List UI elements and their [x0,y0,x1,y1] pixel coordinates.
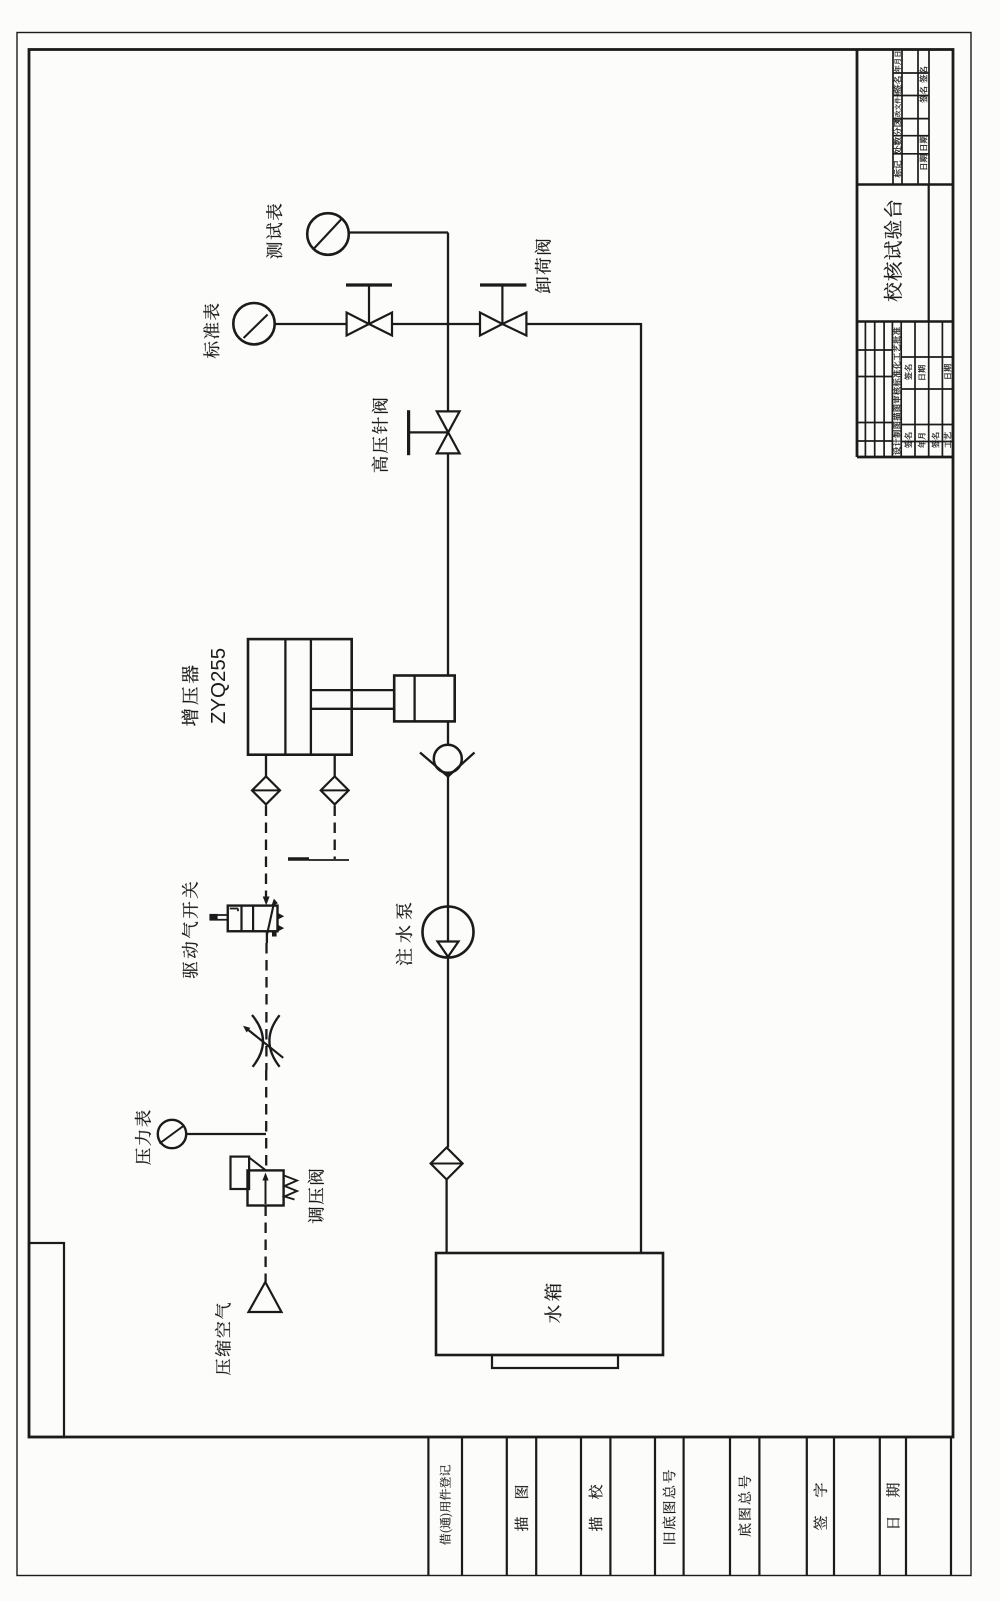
signature table grid [857,322,953,458]
wire: filter F3 to tank [445,1180,447,1254]
revision col header 标记 [894,161,902,178]
label 注水泵 [396,903,413,966]
pressure gauge 压力表 [158,1120,266,1148]
revision col header 签名 [894,76,902,92]
wire: needle valve to booster [447,453,449,675]
pressure regulator 调压阀 [231,1157,298,1206]
signature mark b [918,365,925,379]
wire: main vertical line upper [447,233,449,412]
signature mark f [932,432,940,448]
revision col header 年月日 [894,52,901,73]
drive air switch 驱动气开关 [209,899,284,943]
wire: valve V2 to right riser [526,323,641,325]
revision col header 分区 [894,119,902,136]
high pressure needle valve 高压针阀 [409,410,460,455]
exhaust port symbol [288,859,349,860]
signature mark a [904,364,912,380]
margin cell 签字 char 签 [813,1516,826,1530]
bottom margin table grid [428,1437,951,1576]
svg-text:ZYQ255: ZYQ255 [207,648,230,724]
margin cell 借(通)用件登记 [440,1465,453,1545]
label 高压针阀 [372,398,388,472]
title area divider [928,185,930,322]
label 水箱 [544,1284,561,1323]
wire: right riser down to tank [640,323,642,1253]
air line regulator to inlet (dashed) [264,1206,266,1283]
signature row headers [893,327,901,454]
wire: gauge line left of valve V1 [275,323,347,325]
label 卸荷阀 [535,239,551,293]
revision col header 更改文件号 [895,91,901,123]
corner reference box (bottom-left) [29,1243,64,1437]
revision col header 处数 [894,137,902,154]
revision entry mark 3 [920,135,928,150]
water filter F3 [431,1148,463,1180]
signature mark g [944,432,951,448]
label 测试表 [266,204,282,259]
shut-off valve V1 [346,285,392,336]
label 驱动气开关 [182,882,198,978]
margin cell 日期 char 日 [887,1518,900,1528]
throttle valve [243,1012,283,1070]
title block revision table grid [893,50,929,185]
margin cell 描图 char 图 [515,1486,528,1498]
margin cell 旧底图总号 [663,1470,676,1544]
signature mark c [944,364,951,378]
margin cell 签字 char 字 [813,1483,827,1497]
air filter F1 [252,755,280,805]
drawing title 校核试验台 [884,201,902,302]
wire: test gauge to main line [349,231,448,233]
pressure gauge 标准表 [233,303,274,344]
wire: pump to filter F3 [447,958,449,1148]
wire: check valve to pump [447,773,449,942]
water pump 注水泵 [423,907,474,958]
signature mark d [904,432,912,448]
label 压缩空气 [215,1303,231,1375]
margin cell 描图 char 描 [515,1517,529,1531]
wire: between valve V1 and V2 [392,323,480,325]
air line throttle to regulator (dashed) [265,1070,267,1170]
pressure gauge 测试表 [307,213,349,255]
air pilot line F1 to switch (dashed) [263,806,270,906]
title block outline [857,50,953,458]
revision entry mark 4 [920,154,928,169]
revision entry mark 2 [920,87,928,103]
compressed air inlet triangle [249,1282,282,1312]
air pilot line F2 to exhaust (dashed) [334,806,336,860]
water tank 水箱 [436,1253,663,1368]
check valve [420,745,475,777]
label 调压阀 [308,1169,324,1223]
revision entry mark 1 [920,67,928,83]
signature mark e [918,433,926,448]
margin cell 描校 char 校 [589,1485,603,1499]
margin cell 日期 char 期 [886,1483,900,1497]
margin cell 底图总号 [738,1476,751,1537]
unloading valve V2 卸荷阀 [480,285,526,336]
air filter F2 [321,755,349,805]
air line switch to throttle (dashed) [265,943,267,1010]
label 标准表 [203,304,219,359]
margin cell 描校 char 描 [589,1517,603,1531]
booster 增压器 ZYQ255 [248,639,455,755]
wire: booster to check valve [447,721,449,745]
label 压力表 [135,1110,151,1164]
label 增压器 [181,666,198,726]
